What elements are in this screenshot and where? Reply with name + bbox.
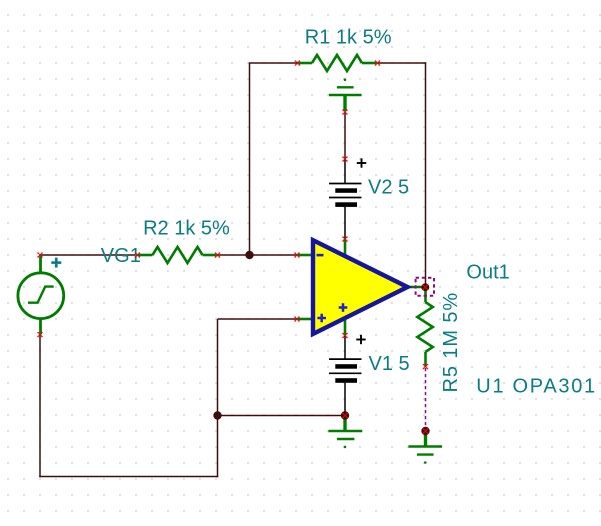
- resistor R2: [138, 247, 218, 263]
- svg-text:R1 1k 5%: R1 1k 5%: [305, 27, 392, 49]
- svg-text:R2 1k 5%: R2 1k 5%: [143, 217, 230, 239]
- selection box at output node (dashed): [416, 278, 434, 296]
- voltage generator VG1: [18, 255, 64, 335]
- op-amp minus mark: [317, 254, 324, 257]
- svg-text:VG1: VG1: [101, 245, 141, 267]
- VG1 polarity plus: [51, 258, 61, 268]
- resistor R5: [417, 287, 433, 367]
- battery V2: [329, 159, 362, 239]
- ground under R5: [408, 431, 442, 464]
- node junction R5 to ground: [421, 427, 429, 435]
- wire R2 to op-amp inverting input: [218, 254, 298, 256]
- wire VG1 top to R2: [40, 254, 138, 256]
- output node Out1: [421, 283, 429, 291]
- svg-text:Out1: Out1: [466, 261, 509, 283]
- svg-text:U1 OPA301: U1 OPA301: [476, 375, 597, 397]
- node junction bottom left: [213, 411, 221, 419]
- V2 plus sign: [357, 158, 366, 167]
- node junction at feedback tap: [245, 251, 253, 259]
- op-amp plus mark: [317, 314, 326, 323]
- wire bottom vertical up to plus input row: [217, 319, 219, 477]
- wire feedback top left to R1: [249, 62, 297, 64]
- ground above V2 (inverted): [329, 78, 362, 111]
- wire R1 to top right corner: [377, 62, 426, 64]
- node junction V1 minus to ground: [341, 411, 349, 419]
- V1 plus sign: [356, 335, 365, 344]
- selected wire R5 to ground (dashed): [425, 368, 427, 429]
- svg-text:V2 5: V2 5: [368, 177, 409, 199]
- svg-text:R5 1M 5%: R5 1M 5%: [440, 292, 462, 393]
- wire junction to V1 ground junction: [218, 415, 346, 417]
- battery V1: [329, 336, 362, 416]
- terminal connection x-marks: [295, 60, 301, 66]
- svg-text:V1 5: V1 5: [369, 353, 410, 375]
- wire VG1 bottom down: [39, 335, 41, 478]
- resistor R1: [297, 55, 377, 71]
- wire feedback vertical right to output node: [425, 62, 427, 287]
- wire feedback vertical left: [249, 63, 251, 255]
- ground under V1: [328, 416, 362, 449]
- op-amp U1: [297, 239, 426, 336]
- wire bottom horizontal: [39, 476, 218, 478]
- wire to op-amp non-inverting input: [218, 318, 298, 320]
- wire ground to V2 plus terminal: [344, 112, 346, 159]
- op-amp supply plus mark: [339, 303, 348, 312]
